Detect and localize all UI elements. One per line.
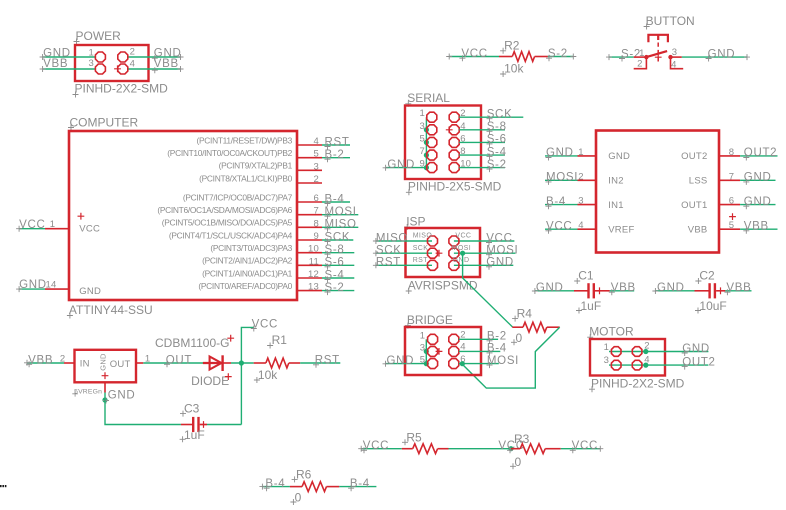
capacitor C3 1uF [180,401,242,442]
svg-text:GND: GND [708,48,736,60]
POWER pin 2 [118,47,135,62]
svg-text:5: 5 [420,355,425,366]
U2 pin 7 LSS net GND [689,171,776,186]
svg-text:GND: GND [536,282,564,294]
POWER pin 4 [118,59,135,74]
svg-text:BRIDGE: BRIDGE [407,313,453,327]
resistor R3 0 [510,432,561,469]
SERIAL pin 3 [420,121,437,135]
svg-text:2: 2 [130,47,135,58]
wire net VBB from C1 [609,282,636,295]
wire net SCK from SERIAL pin 2 [459,109,523,122]
svg-text:8: 8 [729,147,734,158]
wire VBB right (POWER pin4) [128,58,184,73]
COMPUTER pin 4 PB3 [197,135,322,147]
wire junction down to C3 [240,363,242,425]
ISP left pin RST net RST [373,257,438,271]
SERIAL pin 7 [420,146,437,160]
BRIDGE pin 1 [420,330,438,344]
svg-text:GND: GND [387,355,415,367]
svg-text:1: 1 [578,147,583,158]
wire net S-2 at COMPUTER pin 13 [322,282,354,295]
svg-text:R6: R6 [296,467,312,481]
wire net VCC up from junction [241,319,278,363]
COMPUTER pin 12 PA1 [202,268,322,280]
wire net S-8 from SERIAL pin 4 [459,121,507,134]
COMPUTER pin 7 PA6 [157,205,322,217]
wire GND right (POWER pin2) [128,48,184,62]
svg-text:(PCINT8/XTAL1/CLKI)PB0: (PCINT8/XTAL1/CLKI)PB0 [199,173,292,183]
wire net MOSI from BRIDGE pin 6 [459,355,519,368]
svg-text:VBB: VBB [43,58,68,70]
COMPUTER pin 9 PA4 [169,230,322,242]
svg-text:5: 5 [314,149,319,160]
SERIAL pin 4 [449,121,465,135]
svg-text:SCK: SCK [413,245,429,252]
svg-text:SERIAL: SERIAL [407,91,450,105]
svg-text:MOSI: MOSI [452,245,472,252]
connector J4 BRIDGE header [405,313,481,375]
svg-text:BUTTON: BUTTON [646,14,695,28]
COMPUTER pin 13 PA0 [198,281,322,293]
wire net MOSI at COMPUTER pin 7 [322,206,358,219]
svg-text:10k: 10k [258,368,278,382]
COMPUTER pin 10 PA3 [210,243,322,255]
MOTOR pin 4 [632,355,649,370]
wire GND left (POWER pin1) [40,48,96,61]
svg-text:GND: GND [608,151,630,162]
svg-text:1: 1 [420,108,425,119]
svg-text:PINHD-2X2-SMD: PINHD-2X2-SMD [591,377,685,391]
svg-text:IN: IN [80,359,90,370]
wire net GND to SERIAL pin 9 [383,159,427,171]
svg-text:VCC: VCC [19,219,45,231]
svg-text:LSS: LSS [689,176,708,187]
svg-text:1uF: 1uF [581,299,602,313]
svg-text:VBB: VBB [154,58,179,70]
svg-text:OUT: OUT [110,359,131,370]
svg-text:PINHD-2X2-SMD: PINHD-2X2-SMD [75,82,169,96]
svg-text:2: 2 [578,171,583,182]
U2 pin 8 OUT2 net OUT2 [681,147,777,162]
svg-text:5VREGn: 5VREGn [74,388,102,395]
svg-text:CDBM1100-G: CDBM1100-G [155,336,229,350]
wire net GND to C1 [532,282,574,294]
wire net B-2 at COMPUTER pin 5 [322,149,350,162]
wire net MISO at COMPUTER pin 8 [322,219,358,232]
svg-text:13: 13 [308,282,319,293]
ISP right pin GND net GND [449,257,514,271]
U2 pin 1 GND net GND [545,147,630,162]
junction BRIDGE pin 6 [460,361,465,366]
resistor R5 [402,431,449,454]
wire net S-2 from SERIAL pin 10 [459,159,507,172]
svg-text:VCC: VCC [79,223,100,234]
svg-text:(PCINT9/XTAL2)PB1: (PCINT9/XTAL2)PB1 [219,161,293,171]
svg-text:PINHD-2X5-SMD: PINHD-2X5-SMD [408,180,502,194]
connector J1 POWER header PINHD-2X2-SMD [73,29,169,98]
SERIAL pin 10 [449,159,471,173]
svg-text:1: 1 [604,342,609,353]
svg-text:VBB: VBB [688,224,708,235]
svg-text:4: 4 [644,355,649,366]
capacitor C1 1uF [574,269,610,314]
wire net S-6 from SERIAL pin 6 [459,134,507,147]
connector J5 MOTOR header PINHD-2X2-SMD [587,325,684,393]
svg-text:2: 2 [314,174,319,185]
svg-text:6: 6 [314,193,319,204]
svg-text:3: 3 [420,121,425,132]
wire net S-4 from SERIAL pin 8 [459,146,507,159]
svg-text:(PCINT2/AIN1/ADC2)PA2: (PCINT2/AIN1/ADC2)PA2 [202,256,293,266]
svg-text:AVRISPSMD: AVRISPSMD [408,278,478,292]
wire net VCC from R3 [561,440,604,453]
svg-text:5: 5 [420,133,425,144]
svg-text:4: 4 [671,59,676,70]
switch S1 BUTTON [634,14,695,71]
svg-text:11: 11 [309,256,319,267]
resistor R4 0 [511,306,560,345]
wire R5 to R3 junction net VCC [449,440,525,453]
svg-text:MOTOR: MOTOR [589,325,634,339]
svg-text:3: 3 [89,58,94,69]
BRIDGE pin 6 [449,354,466,369]
svg-text:POWER: POWER [76,29,122,43]
svg-text:GND: GND [108,390,136,402]
MOTOR pin 2 [632,341,649,357]
wire net VCC to R5 [358,440,402,453]
svg-text:(PCINT10/INT0/OC0A/CKOUT)PB2: (PCINT10/INT0/OC0A/CKOUT)PB2 [167,148,292,158]
connector J3 ISP header AVRISPSMD [404,215,480,295]
svg-text:GND: GND [79,286,101,297]
POWER pin 1 [89,48,106,62]
svg-text:MISO: MISO [376,232,408,244]
BRIDGE pin 4 [449,342,466,357]
svg-text:4: 4 [130,59,135,70]
svg-text:7: 7 [729,171,734,182]
svg-text:6: 6 [729,196,734,207]
svg-text:1: 1 [50,219,55,230]
svg-text:(PCINT6/OC1A/SDA/MOSI/ADC6)PA6: (PCINT6/OC1A/SDA/MOSI/ADC6)PA6 [157,205,292,215]
wire net S-6 at COMPUTER pin 11 [322,257,354,270]
svg-text:1: 1 [639,48,644,59]
wire VBB left (POWER pin3) [40,58,96,72]
svg-text:3: 3 [314,161,319,172]
svg-text:GND: GND [657,282,685,294]
svg-text:2: 2 [637,59,642,70]
capacitor C2 10uF [695,269,727,314]
svg-text:R5: R5 [406,431,422,445]
U2 pin 3 IN1 net B-4 [545,196,624,211]
svg-text:1uF: 1uF [184,428,205,442]
svg-text:IN2: IN2 [608,176,624,187]
svg-text:VCC: VCC [455,233,471,240]
COMPUTER pin 2 PB0 [199,173,322,185]
SERIAL pin 8 [449,146,465,160]
svg-text:(PCINT7/ICP/OC0B/ADC7)PA7: (PCINT7/ICP/OC0B/ADC7)PA7 [183,192,293,202]
svg-text:14: 14 [46,279,57,290]
svg-text:(PCINT0/AREF/ADC0)PA0: (PCINT0/AREF/ADC0)PA0 [198,281,292,291]
svg-text:C3: C3 [184,401,200,415]
svg-text:R4: R4 [517,306,533,320]
svg-text:1: 1 [89,48,94,59]
svg-text:1: 1 [420,330,425,341]
SERIAL pin 2 [449,108,465,122]
ISP left pin MISO net MISO [373,232,438,246]
svg-text:9: 9 [420,159,425,170]
svg-text:4: 4 [314,136,319,147]
svg-text:(PCINT3/T0/ADC3)PA3: (PCINT3/T0/ADC3)PA3 [210,243,292,253]
wire net GND from BUTTON pin 3 [682,48,750,61]
wire R4 to BRIDGE pin 6 [462,327,559,388]
wire net B-2 from BRIDGE pin 2 [459,331,507,344]
U2 origin cross [729,213,736,220]
svg-text:SCK: SCK [376,245,402,257]
SERIAL pin 5 [420,133,437,147]
svg-text:10uF: 10uF [699,299,726,313]
SERIAL pin 9 [420,159,437,173]
wire net S-8 at COMPUTER pin 10 [322,244,354,257]
svg-text:GND: GND [453,257,470,264]
wire net B-4 from BRIDGE pin 4 [459,343,507,356]
svg-text:8: 8 [314,218,319,229]
wire net OUT2 MOTOR row 2 [609,356,716,369]
BRIDGE pin 5 [420,355,438,369]
ISP right pin MOSI net MOSI [449,245,519,259]
ISP left pin SCK net SCK [373,245,438,259]
svg-text:C1: C1 [578,269,594,283]
svg-text:(PCINT11/RESET/DW)PB3: (PCINT11/RESET/DW)PB3 [197,135,293,145]
wire net VBB from C2 [724,282,751,295]
wire net S-2 to BUTTON pin 1 [606,48,641,61]
wire net GND to C2 [652,282,694,294]
svg-text:GND: GND [19,279,47,291]
wire net GND MOTOR row 1 [609,343,710,356]
svg-text:7: 7 [420,146,425,157]
svg-text:DIODE: DIODE [191,374,229,388]
svg-text:R2: R2 [504,38,520,52]
COMPUTER pin 1 VCC with net VCC [16,213,100,235]
svg-text:0: 0 [516,331,523,345]
svg-text:MISO: MISO [413,233,433,240]
diode D1 CDBM1100-G [155,335,234,388]
COMPUTER pin 8 PA5 [162,218,322,230]
wire net VCC to R2 [446,48,499,61]
svg-text:(PCINT5/OC1B/MISO/DO/ADC5)PA5: (PCINT5/OC1B/MISO/DO/ADC5)PA5 [162,218,293,228]
voltage regulator IC3 5VREG [64,350,150,397]
ISP right pin VCC net VCC [449,232,515,246]
svg-text:RST: RST [413,257,429,264]
svg-text:2: 2 [644,341,649,352]
wire net OUT regulator to diode [143,354,203,367]
wire net B-4 at COMPUTER pin 6 [322,193,350,206]
IC U2 motor driver [596,131,719,253]
svg-text:(PCINT4/T1/SCL/USCK/ADC4)PA4: (PCINT4/T1/SCL/USCK/ADC4)PA4 [169,230,293,240]
svg-text:GND: GND [387,159,415,171]
wire GND bus on SERIAL pins 1,3,5,7,9 [424,117,429,170]
wire net S-4 at COMPUTER pin 12 [322,269,354,282]
svg-text:3: 3 [604,355,609,366]
svg-text:IN1: IN1 [608,200,624,211]
svg-text:GND: GND [98,353,107,371]
svg-text:12: 12 [308,269,319,280]
stray dots bottom-left [0,485,6,487]
MOTOR pin 1 [604,342,621,356]
svg-text:R3: R3 [514,432,530,446]
svg-text:4: 4 [578,220,583,231]
svg-text:3: 3 [578,196,583,207]
resistor R6 0 [290,467,339,505]
U2 pin 2 IN2 net MOSI [545,171,624,186]
svg-text:OUT2: OUT2 [681,151,707,162]
IC U1 COMPUTER ATTINY44-SSU [67,116,297,319]
COMPUTER pin 11 PA2 [202,256,322,268]
svg-text:9: 9 [314,231,319,242]
resistor R1 10k [254,333,301,383]
wire net B-4 to R6 [259,478,290,491]
connector J2 SERIAL header PINHD-2X5-SMD [405,91,502,195]
COMPUTER pin 5 PB2 [167,148,322,160]
COMPUTER pin 6 PA7 [183,192,322,204]
svg-text:ISP: ISP [406,215,425,229]
wire MOSI junction to R4 (diagonal) [460,251,512,328]
svg-text:10k: 10k [504,62,524,76]
svg-text:ATTINY44-SSU: ATTINY44-SSU [69,303,153,317]
BRIDGE pin 2 [449,330,466,345]
U2 pin 5 VBB net VBB [688,220,778,235]
SERIAL pin 1 [420,108,437,122]
U2 pin 4 VREF net VCC [545,220,635,235]
wire net VBB to regulator IN [24,354,65,368]
svg-text:VREF: VREF [608,224,634,235]
wire net B-4 from R6 [339,478,376,491]
svg-text:3: 3 [672,47,677,58]
svg-text:RST: RST [376,257,401,269]
svg-text:(PCINT1/AIN0/ADC1)PA1: (PCINT1/AIN0/ADC1)PA1 [202,268,293,278]
svg-text:C2: C2 [699,269,715,283]
wire diode to VCC/R1 junction [231,360,254,365]
U2 pin 6 OUT1 net GND [681,196,775,211]
MOTOR pin 3 [604,355,621,370]
wire net RST at COMPUTER pin 4 [322,136,350,149]
wire net S-2 from R2 [546,48,576,61]
COMPUTER pin 3 PB1 [219,161,322,173]
svg-text:OUT1: OUT1 [681,200,707,211]
svg-text:COMPUTER: COMPUTER [70,116,139,130]
BRIDGE pin 3 [420,342,438,356]
resistor R2 10k [499,38,548,77]
svg-text:3: 3 [420,342,425,353]
wire net GND to BRIDGE pin 5 [383,355,427,367]
svg-text:10: 10 [308,244,319,255]
SERIAL pin 6 [449,133,465,147]
svg-text:R1: R1 [272,333,288,347]
svg-text:5: 5 [729,220,734,231]
wire net GND regulator to C3 [102,390,180,425]
POWER pin 3 [89,58,106,74]
wire GND bus on BRIDGE pins 1,3,5 [424,339,429,366]
COMPUTER pin 14 GND with net GND [16,279,101,297]
svg-text:7: 7 [314,206,319,217]
wire net SCK at COMPUTER pin 9 [322,231,353,244]
wire net RST from R1 [300,354,340,368]
